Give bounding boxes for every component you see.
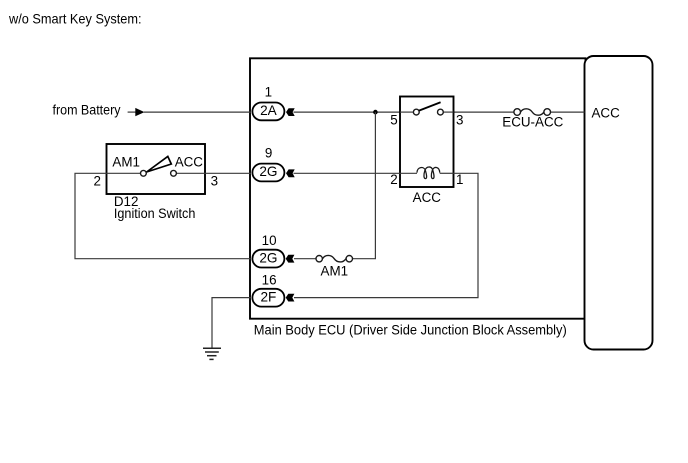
- wire: AM1 fuse to 2G(10): [294, 258, 316, 260]
- wire: 2F to ground: [212, 298, 251, 348]
- svg-text:AM1: AM1: [112, 154, 140, 169]
- relay switch contacts: [400, 109, 454, 115]
- node: junction on battery wire: [373, 110, 378, 115]
- ignition switch box D12: [107, 144, 206, 194]
- main body ECU box: [250, 58, 586, 318]
- connector 2F pin 16: [252, 289, 284, 307]
- wire: battery to 2A: [144, 111, 251, 113]
- battery flow arrow: [128, 111, 136, 113]
- svg-text:Ignition Switch: Ignition Switch: [114, 206, 195, 221]
- connector 2G pin 10: [252, 250, 284, 268]
- arrow into 2A: [286, 108, 295, 116]
- arrow into 2G(9): [286, 169, 295, 177]
- wire: switch contact to box right edge: [177, 172, 206, 174]
- svg-text:2G: 2G: [259, 250, 277, 265]
- junction block rounded box: [585, 56, 653, 350]
- wire: junction down to AM1 fuse: [353, 112, 376, 259]
- svg-text:2G: 2G: [259, 164, 277, 179]
- fuse ECU-ACC: [514, 109, 551, 116]
- wire: box left edge to switch pivot: [107, 172, 141, 174]
- wire: ignition pin 3 to 2G(9): [205, 172, 251, 174]
- wire: 2G(9) to relay pin 2: [294, 172, 401, 174]
- svg-text:1: 1: [265, 85, 272, 100]
- svg-text:ACC: ACC: [592, 106, 621, 121]
- svg-text:2: 2: [390, 172, 397, 187]
- svg-text:1: 1: [456, 172, 463, 187]
- arrow into 2F: [286, 294, 295, 302]
- svg-text:w/o Smart Key System:: w/o Smart Key System:: [8, 12, 141, 27]
- relay ACC box: [400, 97, 454, 188]
- svg-text:from Battery: from Battery: [53, 102, 121, 117]
- fuse AM1: [316, 255, 352, 261]
- wire: relay pin 1 down to 2F: [294, 173, 478, 297]
- svg-text:ECU-ACC: ECU-ACC: [502, 114, 563, 129]
- switch pivot contacts: [141, 170, 147, 176]
- svg-text:3: 3: [211, 173, 218, 188]
- ground: [203, 348, 221, 359]
- svg-text:AM1: AM1: [321, 263, 349, 278]
- svg-text:10: 10: [262, 233, 277, 248]
- svg-text:3: 3: [456, 112, 463, 127]
- arrow into 2G(10): [286, 255, 295, 263]
- wire: ECU-ACC fuse to junction block: [550, 111, 584, 113]
- svg-text:2: 2: [94, 173, 101, 188]
- switch lever wedge: [147, 156, 172, 172]
- svg-text:9: 9: [265, 146, 272, 161]
- relay coil: [400, 167, 454, 179]
- wire: 2A to relay pin 5: [294, 111, 401, 113]
- svg-text:16: 16: [262, 272, 277, 287]
- svg-text:2A: 2A: [260, 103, 278, 118]
- wire: 2G(10) to ignition pin 2: [75, 173, 251, 258]
- wire: relay pin 3 to ECU-ACC fuse: [454, 111, 515, 113]
- svg-text:Main Body ECU (Driver Side Jun: Main Body ECU (Driver Side Junction Bloc…: [254, 323, 567, 338]
- svg-text:2F: 2F: [260, 289, 276, 304]
- connector 2A: [252, 103, 284, 121]
- svg-text:5: 5: [390, 112, 397, 127]
- connector 2G pin 9: [252, 164, 284, 182]
- relay switch blade: [419, 102, 441, 110]
- svg-text:ACC: ACC: [175, 154, 204, 169]
- svg-text:ACC: ACC: [413, 190, 442, 205]
